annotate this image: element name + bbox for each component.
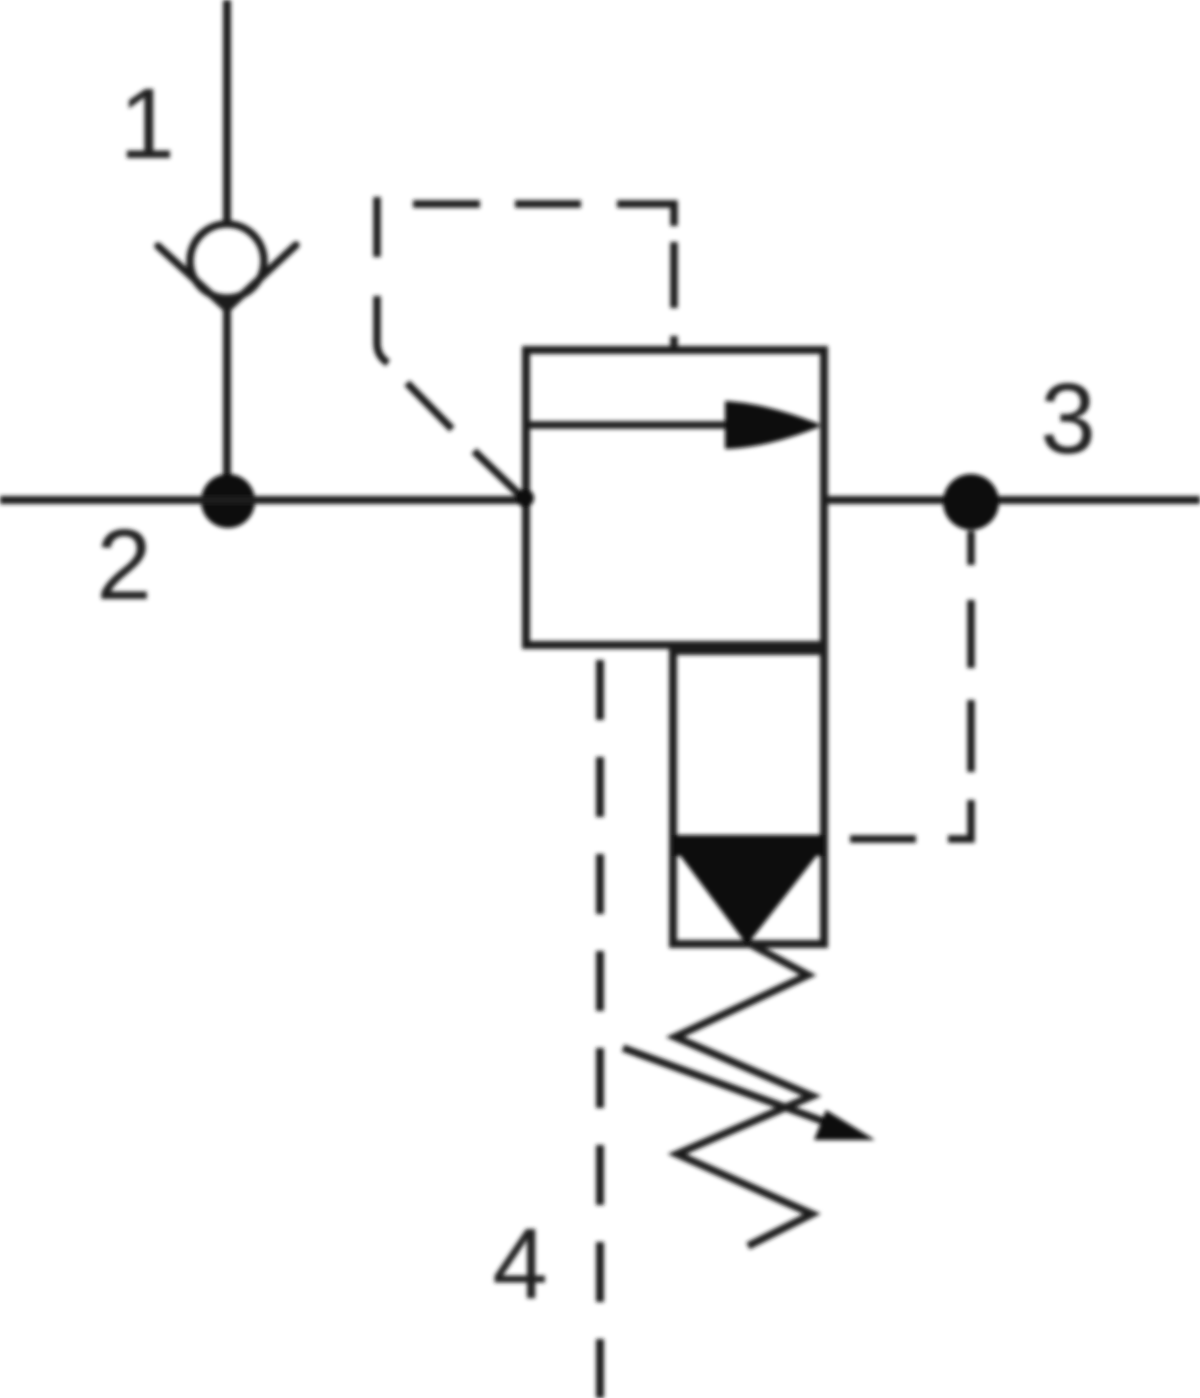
check valve CV1 seat (158, 245, 296, 309)
pilot dashed line from node 3 vertical (948, 531, 971, 839)
pilot dashed line from node 3 horizontal (850, 835, 916, 843)
check valve CV1 circle (190, 224, 264, 298)
wire port 2 horizontal left (0, 496, 526, 504)
wire check valve to node 2 (223, 300, 231, 502)
svg-text:4: 4 (492, 1208, 548, 1320)
valve V1 flow path arrow line (526, 421, 742, 429)
pilot dashed box left (377, 197, 388, 363)
port 4 dashed drain line (596, 660, 604, 1398)
adjustment arrow shaft (623, 1048, 828, 1123)
svg-text:1: 1 (119, 68, 175, 180)
adjustment arrowhead (814, 1110, 875, 1140)
poppet black triangle (679, 854, 818, 945)
pilot dashed diagonal to valve inlet (407, 383, 523, 498)
node 2 junction dot (201, 474, 255, 528)
valve V1 body envelope (526, 350, 824, 645)
spring box lower stage (673, 651, 824, 944)
svg-text:3: 3 (1040, 363, 1096, 475)
spring S1 zigzag (675, 944, 812, 1246)
valve V1 flow path arrowhead (725, 401, 819, 449)
wire port 3 horizontal right (824, 496, 1200, 504)
svg-text:2: 2 (96, 509, 152, 621)
junction blob at valve inlet (516, 489, 534, 507)
port 1 line (223, 0, 231, 224)
node 3 junction dot (943, 474, 999, 530)
pilot dashed box top (413, 204, 674, 226)
poppet seat black bar (673, 835, 824, 856)
pilot dashed box right (670, 242, 678, 350)
